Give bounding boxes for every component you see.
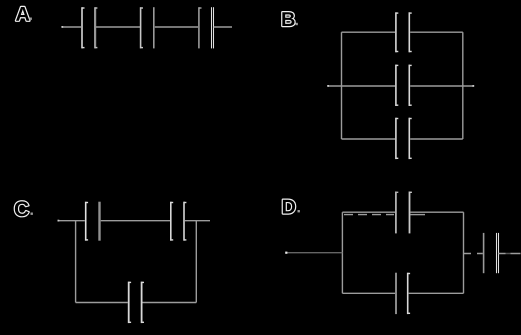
wire D middle right lead	[464, 253, 483, 255]
wire C top rail middle	[101, 220, 170, 222]
wire B top rail left	[342, 31, 396, 33]
wire D left input lead	[286, 252, 342, 254]
wire A right lead	[214, 26, 232, 28]
capacitor C-C2	[171, 202, 187, 241]
wire B right vertical	[462, 32, 464, 139]
capacitor B-C1	[396, 12, 412, 52]
wire D bottom rail left	[342, 292, 395, 294]
label A	[16, 7, 29, 21]
wire C top rail left lead	[58, 220, 85, 222]
wire C right vertical	[195, 221, 197, 303]
wire B bottom rail right	[410, 138, 463, 140]
label B	[282, 12, 294, 26]
capacitor C-C3	[129, 282, 144, 324]
capacitor D-C2	[396, 273, 410, 314]
capacitor A-C3	[199, 7, 214, 48]
wire D bottom rail right	[409, 292, 464, 294]
wire D top rail dashed double line	[344, 214, 394, 216]
wire A left lead	[62, 26, 81, 28]
wire C top rail right lead	[185, 220, 210, 222]
wire D top rail right	[410, 211, 463, 213]
wire C bottom rail left	[76, 302, 128, 304]
label D	[283, 200, 295, 214]
capacitor A-C2	[141, 7, 154, 48]
wire B top rail right	[410, 31, 463, 33]
capacitor B-C3	[396, 118, 412, 159]
wire D left vertical	[341, 212, 343, 293]
wire B left vertical	[341, 32, 343, 139]
label C	[15, 201, 29, 216]
capacitor D-C3	[484, 233, 499, 273]
wire B middle rail right	[410, 85, 473, 87]
wire C bottom rail right	[143, 302, 197, 304]
wire A between C1 and C2	[96, 26, 140, 28]
capacitor A-C1	[82, 7, 97, 48]
capacitor C-C1	[86, 202, 100, 241]
wire D right vertical	[463, 212, 465, 293]
wire D right output lead	[498, 253, 520, 255]
wire D top rail left	[342, 211, 395, 213]
wire A between C2 and C3	[155, 26, 198, 28]
wire B bottom rail left	[342, 138, 396, 140]
wire B middle rail left	[328, 85, 395, 87]
capacitor B-C2	[396, 65, 412, 106]
capacitor D-C1	[396, 192, 412, 234]
wire C left vertical	[75, 221, 77, 303]
